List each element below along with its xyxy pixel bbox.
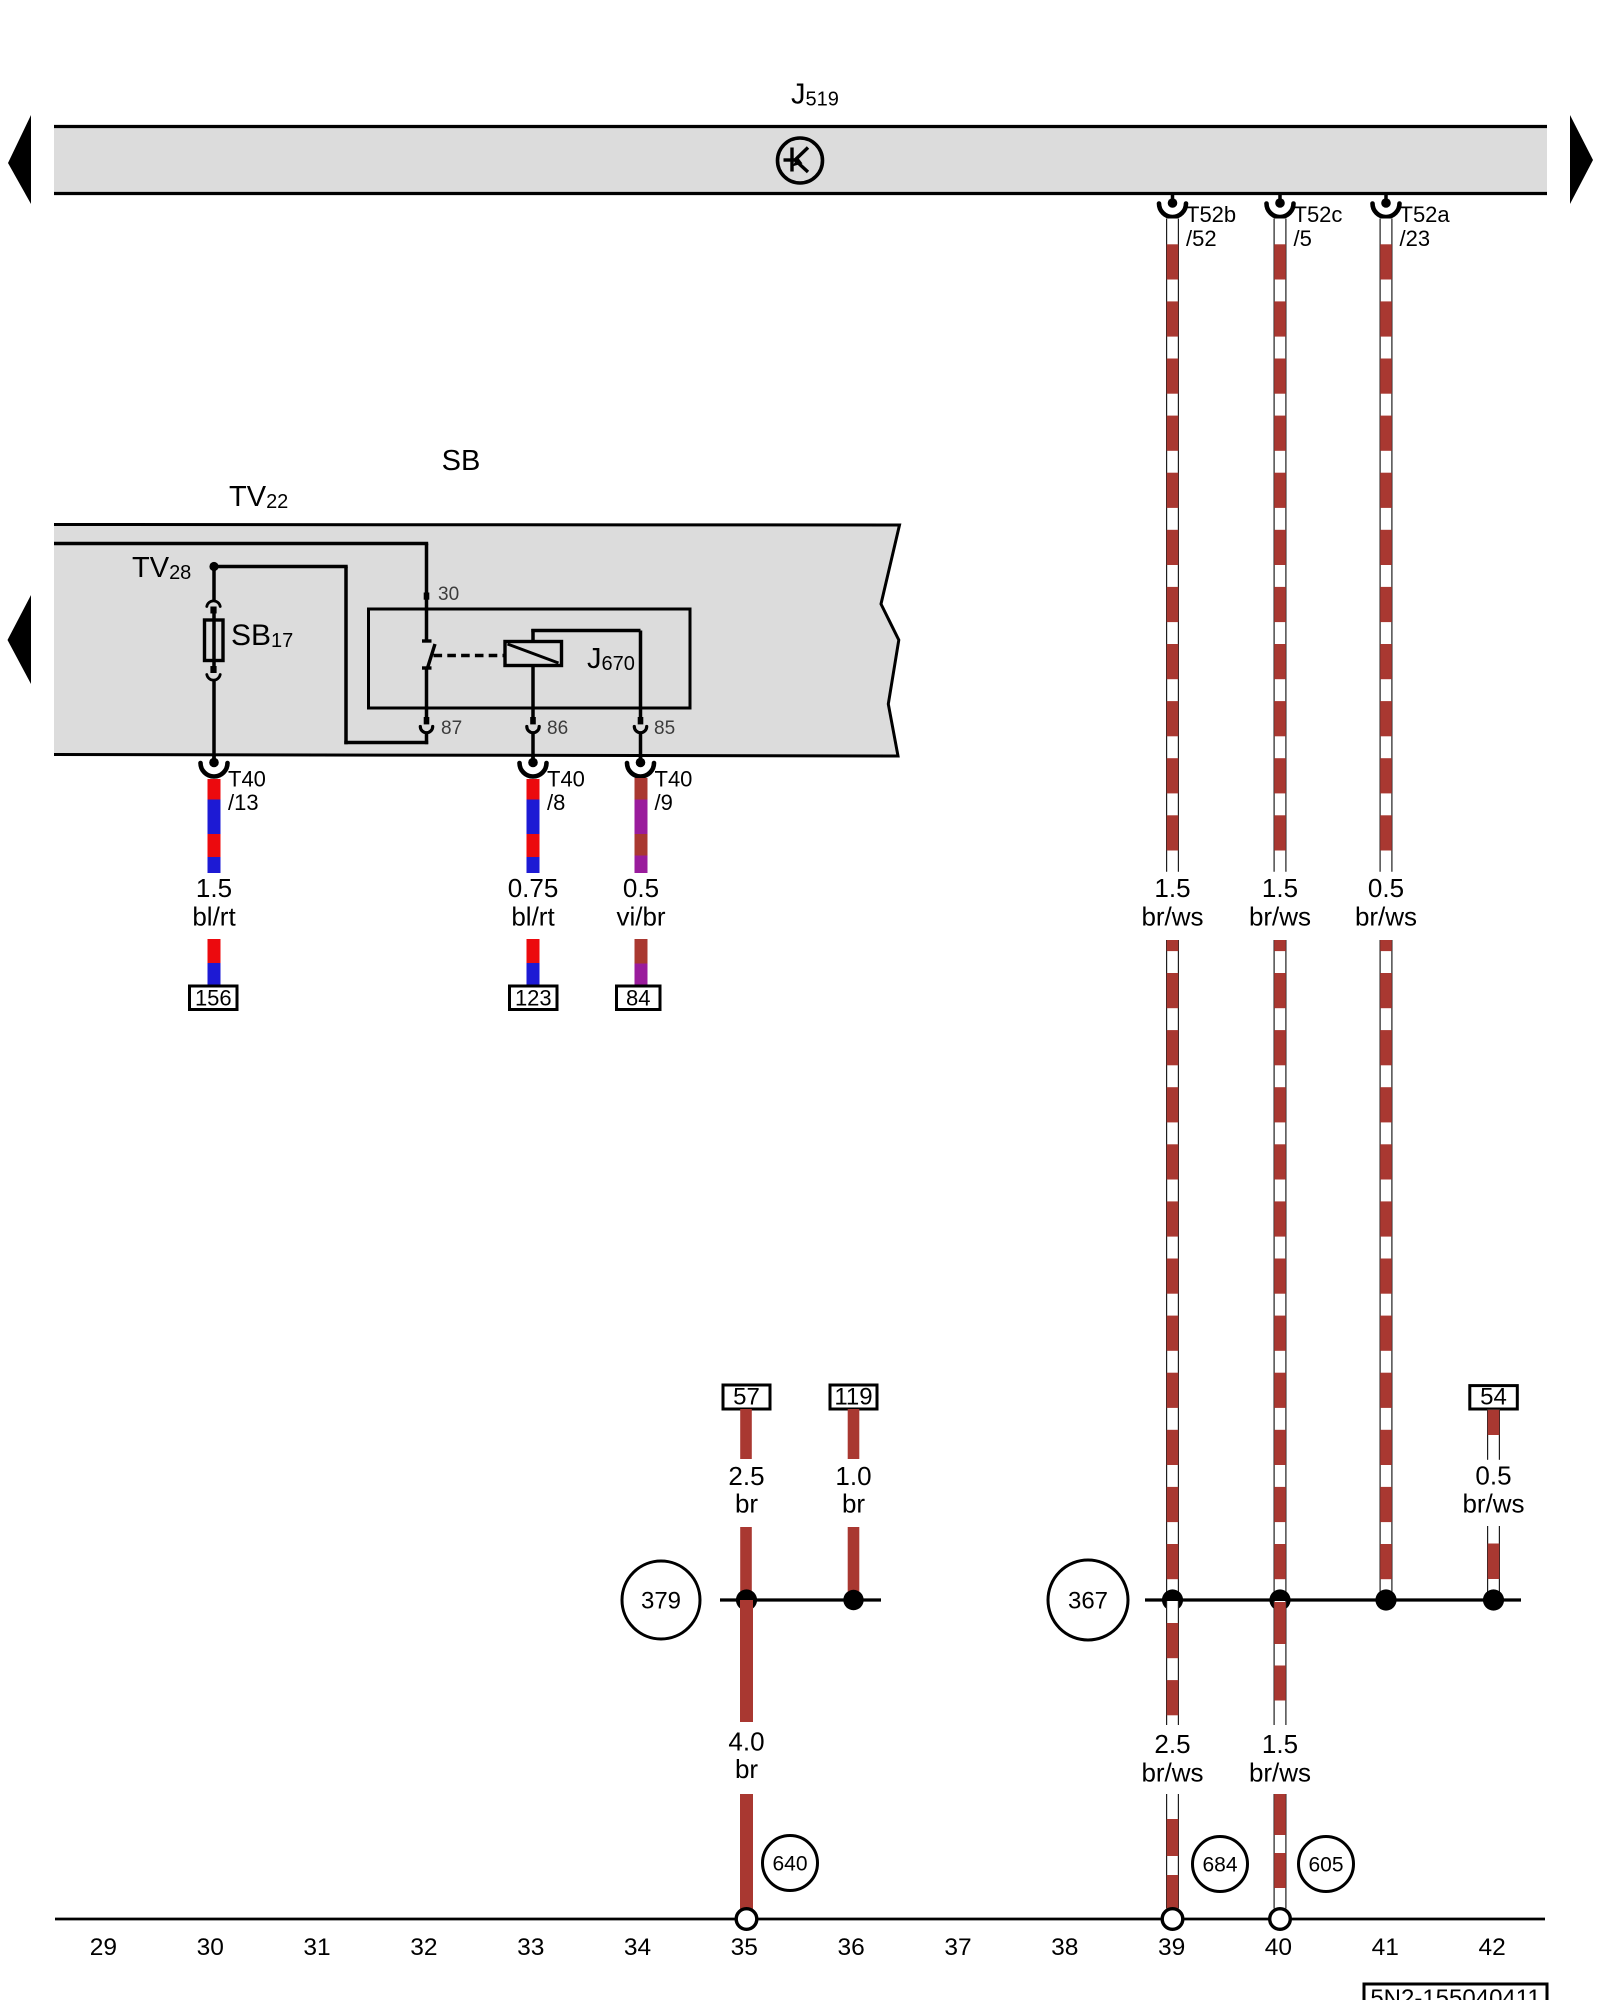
svg-text:42: 42 [1478,1934,1505,1961]
wire br/ws from T52a (run to junction 367) [1380,940,1393,1600]
wire 0.75 bl/rt from T40/8 (upper) [527,779,540,800]
svg-text:0.75: 0.75 [508,873,559,903]
terminal box 84 [617,986,661,1010]
ground terminal circle at 39 [1162,1909,1183,1930]
svg-text:1.5: 1.5 [1262,873,1298,903]
svg-text:4.0: 4.0 [728,1727,764,1757]
wire 0.5 vi/br from T40/9 (upper) [635,778,648,800]
wire 4.0 br below junction 379 (upper part) [740,1600,753,1722]
ground location circle 684 [1193,1837,1248,1892]
ground terminal circle at 40 [1270,1909,1291,1930]
wire br/ws from T52c (run to junction 367) [1274,940,1287,1601]
svg-text:0.5: 0.5 [623,873,659,903]
wire 2.5 br from 57 (upper stub) [740,1409,752,1459]
svg-text:/13: /13 [228,790,259,815]
svg-text:119: 119 [834,1384,872,1411]
svg-text:/9: /9 [655,790,673,815]
svg-text:640: 640 [772,1853,807,1876]
svg-text:684: 684 [1202,1854,1237,1877]
svg-text:1.5: 1.5 [1262,1729,1298,1759]
svg-text:br/ws: br/ws [1249,1758,1311,1788]
fuse panel SB (grey box) [54,525,900,757]
terminal box 119 [830,1385,877,1409]
svg-text:87: 87 [441,718,462,739]
terminal box 123 [510,986,558,1010]
junction dot [1269,1589,1290,1610]
wire 0.5 br/ws from 54 (to junction 367) [1487,1526,1500,1600]
svg-text:605: 605 [1308,1854,1343,1877]
svg-text:TV22: TV22 [229,481,288,513]
svg-text:1.5: 1.5 [1154,873,1190,903]
terminal mark 30 [424,593,430,600]
wire fuse to T40/13 stub [212,755,216,762]
wire coil to terminal 85 [531,629,535,642]
fuse SB17 body [212,613,216,620]
junction dot [1483,1589,1504,1610]
svg-text:40: 40 [1265,1934,1292,1961]
wire br/ws from T52b (upper run) [1166,219,1179,872]
wire 1.5 bl/rt to terminal 156 [208,939,221,963]
connector T40 pin 9 [639,755,643,763]
connector T52b pin 52 [1171,195,1175,203]
svg-text:T52b: T52b [1186,202,1236,227]
page-continuation arrow right (top bus) [1570,115,1593,204]
wire 2.5 br/ws below junction (upper part) [1166,1601,1179,1725]
wire 1.5 bl/rt from T40/13 (upper) [208,779,221,800]
svg-text:37: 37 [944,1934,971,1961]
svg-text:29: 29 [90,1934,117,1961]
wire 4.0 br to ground point 640 [740,1794,753,1909]
svg-text:0.5: 0.5 [1368,873,1404,903]
svg-text:T52a: T52a [1400,202,1451,227]
svg-text:84: 84 [626,986,650,1011]
relay terminal 86 [530,717,536,724]
wire coil to terminal 86 [531,666,535,718]
svg-text:34: 34 [624,1934,651,1961]
diagram number box 5N2-155040411 [1364,1984,1547,2000]
junction dot (119 wire) [843,1590,863,1610]
svg-text:J519: J519 [791,79,839,111]
relay terminal 87 [424,717,430,724]
wire br/ws from T52a (upper run) [1380,219,1393,872]
circle label 367 [1048,1560,1128,1640]
wire 1.0 br from 119 (upper stub) [848,1409,860,1459]
terminal box 156 [190,986,238,1010]
svg-text:T40: T40 [547,767,585,792]
svg-text:0.5: 0.5 [1475,1461,1511,1491]
svg-text:38: 38 [1051,1934,1078,1961]
bottom rail line [55,1918,1545,1921]
svg-text:32: 32 [410,1934,437,1961]
wire 2.5 br/ws to ground point 684 [1166,1794,1179,1909]
svg-text:/5: /5 [1294,226,1312,251]
svg-text:br/ws: br/ws [1141,902,1203,932]
junction bus line (node 379) [720,1598,881,1601]
wire 1.5 br/ws below junction (upper part) [1274,1601,1287,1725]
svg-text:T40: T40 [655,767,693,792]
svg-text:5N2-155040411: 5N2-155040411 [1370,1985,1540,2000]
svg-text:33: 33 [517,1934,544,1961]
svg-text:39: 39 [1158,1934,1185,1961]
ground location circle 640 [763,1836,818,1891]
wire 0.75 bl/rt to terminal 123 [527,939,540,963]
svg-text:T52c: T52c [1294,202,1343,227]
wire 0.5 vi/br to terminal 84 [635,939,648,964]
svg-text:54: 54 [1480,1384,1507,1411]
relay switch contact 30-87 [422,639,432,642]
terminal box 54 [1470,1386,1518,1409]
svg-text:85: 85 [654,718,675,739]
connector T40 pin 13 [212,755,216,763]
svg-text:367: 367 [1068,1588,1108,1615]
svg-text:T40: T40 [228,767,266,792]
svg-text:br: br [735,1489,758,1519]
svg-text:vi/br: vi/br [616,902,665,932]
wire br/ws from T52c (upper run) [1274,219,1287,872]
svg-text:br/ws: br/ws [1249,902,1311,932]
svg-text:41: 41 [1372,1934,1399,1961]
instrument-cluster symbol inside J519 [778,138,823,183]
svg-text:bl/rt: bl/rt [511,902,555,932]
circle label 379 [622,1561,700,1639]
connector T40 pin 8 [531,755,535,763]
svg-text:30: 30 [438,584,459,605]
wire terminal 85 to T40/9 [639,733,643,763]
relay terminal 85 [638,717,644,724]
relay coil J670 [505,642,562,666]
wire TV28 to fuse SB17 [212,567,216,603]
svg-text:br/ws: br/ws [1355,902,1417,932]
junction dot (57 wire) [736,1589,757,1610]
svg-text:156: 156 [195,986,232,1011]
svg-text:SB: SB [442,445,481,477]
wire 2.5 br from 57 (to junction 379) [740,1527,752,1600]
svg-text:/52: /52 [1186,226,1217,251]
wire from left edge to relay contact 30 [54,542,428,546]
ground location circle 605 [1299,1837,1354,1892]
svg-text:br/ws: br/ws [1141,1758,1203,1788]
node TV28 junction dot [209,562,218,571]
svg-text:2.5: 2.5 [1154,1729,1190,1759]
wire 1.0 br from 119 (to junction 379) [848,1527,860,1600]
svg-text:30: 30 [197,1934,224,1961]
svg-text:31: 31 [303,1934,330,1961]
wire TV28 to relay terminal 87 (L-path) [212,565,348,569]
svg-text:br: br [842,1489,865,1519]
svg-text:1.0: 1.0 [835,1461,871,1491]
svg-text:br: br [735,1754,758,1784]
svg-text:/8: /8 [547,790,565,815]
page-continuation arrow left (top bus) [8,115,31,204]
wire fuse SB17 to T40/13 [212,679,216,755]
svg-text:/23: /23 [1400,226,1431,251]
svg-text:2.5: 2.5 [728,1461,764,1491]
connector T52c pin 5 [1278,195,1282,203]
fuse clip upper (SB17) [207,601,220,607]
svg-text:35: 35 [731,1934,758,1961]
svg-text:1.5: 1.5 [196,873,232,903]
fuse clip lower (SB17) [212,661,216,667]
svg-text:bl/rt: bl/rt [192,902,236,932]
wire terminal 86 to T40/8 [531,733,535,763]
relay coil control dashed link [434,654,506,658]
wire br/ws from T52b (run to junction 367) [1166,940,1179,1601]
wire 0.5 br/ws from 54 (upper stub) [1487,1410,1500,1460]
junction bus line (node 367) [1145,1598,1521,1601]
connector T52a pin 23 [1384,195,1388,203]
svg-text:379: 379 [641,1588,681,1615]
wire 1.5 br/ws to ground point 605 [1274,1794,1287,1909]
svg-text:123: 123 [515,986,552,1011]
page-continuation arrow left (SB box) [8,595,32,684]
junction dot [1162,1589,1183,1610]
svg-text:86: 86 [547,718,568,739]
relay J670 outline box [369,609,691,708]
svg-text:36: 36 [837,1934,864,1961]
svg-text:57: 57 [733,1384,760,1411]
junction dot [1375,1589,1396,1610]
terminal box 57 [723,1385,770,1409]
control unit J519 bus bar [54,127,1547,194]
ground terminal circle at 35 [736,1909,757,1930]
svg-text:br/ws: br/ws [1462,1489,1524,1519]
